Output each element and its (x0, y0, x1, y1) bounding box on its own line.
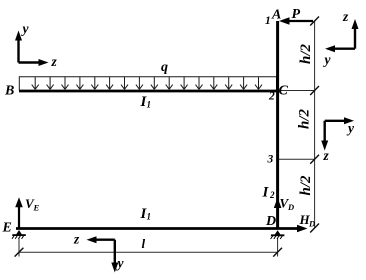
svg-text:z: z (73, 232, 80, 247)
svg-text:E: E (33, 203, 40, 213)
svg-text:1: 1 (147, 100, 152, 110)
svg-text:2: 2 (269, 190, 275, 200)
svg-text:q: q (161, 60, 168, 75)
svg-text:z: z (51, 54, 58, 69)
svg-text:h/2: h/2 (297, 108, 313, 129)
svg-text:h/2: h/2 (298, 43, 314, 64)
svg-text:y: y (116, 256, 125, 271)
svg-text:2: 2 (268, 91, 275, 103)
svg-text:P: P (292, 7, 301, 22)
svg-text:1: 1 (147, 212, 152, 222)
svg-text:I: I (262, 185, 270, 201)
svg-text:h/2: h/2 (298, 175, 314, 196)
svg-text:y: y (323, 52, 332, 67)
svg-text:D: D (287, 202, 294, 212)
svg-text:D: D (308, 219, 315, 229)
svg-text:C: C (279, 84, 289, 99)
svg-text:3: 3 (267, 154, 274, 166)
svg-text:z: z (342, 9, 349, 24)
svg-text:D: D (265, 214, 276, 229)
svg-text:E: E (2, 221, 12, 236)
svg-text:A: A (271, 8, 281, 23)
svg-text:y: y (346, 121, 355, 136)
svg-text:z: z (323, 148, 330, 163)
svg-text:l: l (142, 236, 146, 251)
svg-text:1: 1 (265, 15, 271, 27)
svg-text:B: B (4, 84, 14, 99)
svg-text:y: y (21, 21, 30, 36)
